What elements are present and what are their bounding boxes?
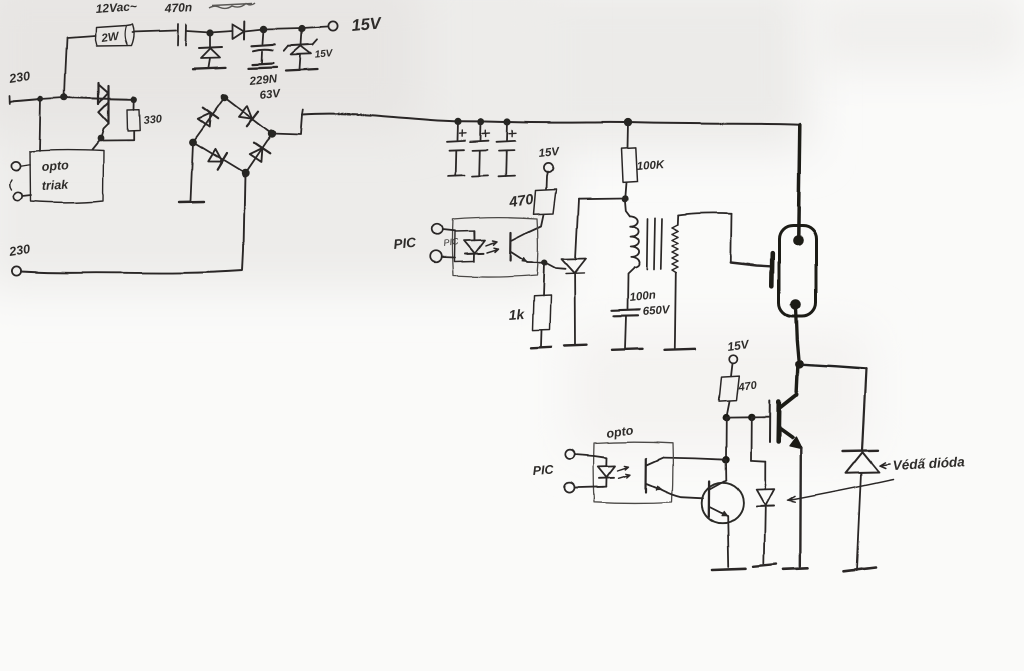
svg-text:470n: 470n [163,0,192,15]
svg-text:650V: 650V [642,304,671,318]
svg-text:100K: 100K [636,159,665,173]
svg-text:15V: 15V [314,48,334,61]
svg-text:triak: triak [41,178,69,193]
svg-text:15V: 15V [538,146,561,160]
svg-text:15V: 15V [351,14,384,35]
svg-text:330: 330 [143,113,163,127]
svg-text:PIC: PIC [443,236,460,248]
svg-text:opto: opto [41,158,69,174]
svg-text:PIC: PIC [393,235,417,252]
svg-text:1k: 1k [508,306,526,323]
svg-text:63V: 63V [259,88,282,102]
svg-text:PIC: PIC [532,463,555,478]
